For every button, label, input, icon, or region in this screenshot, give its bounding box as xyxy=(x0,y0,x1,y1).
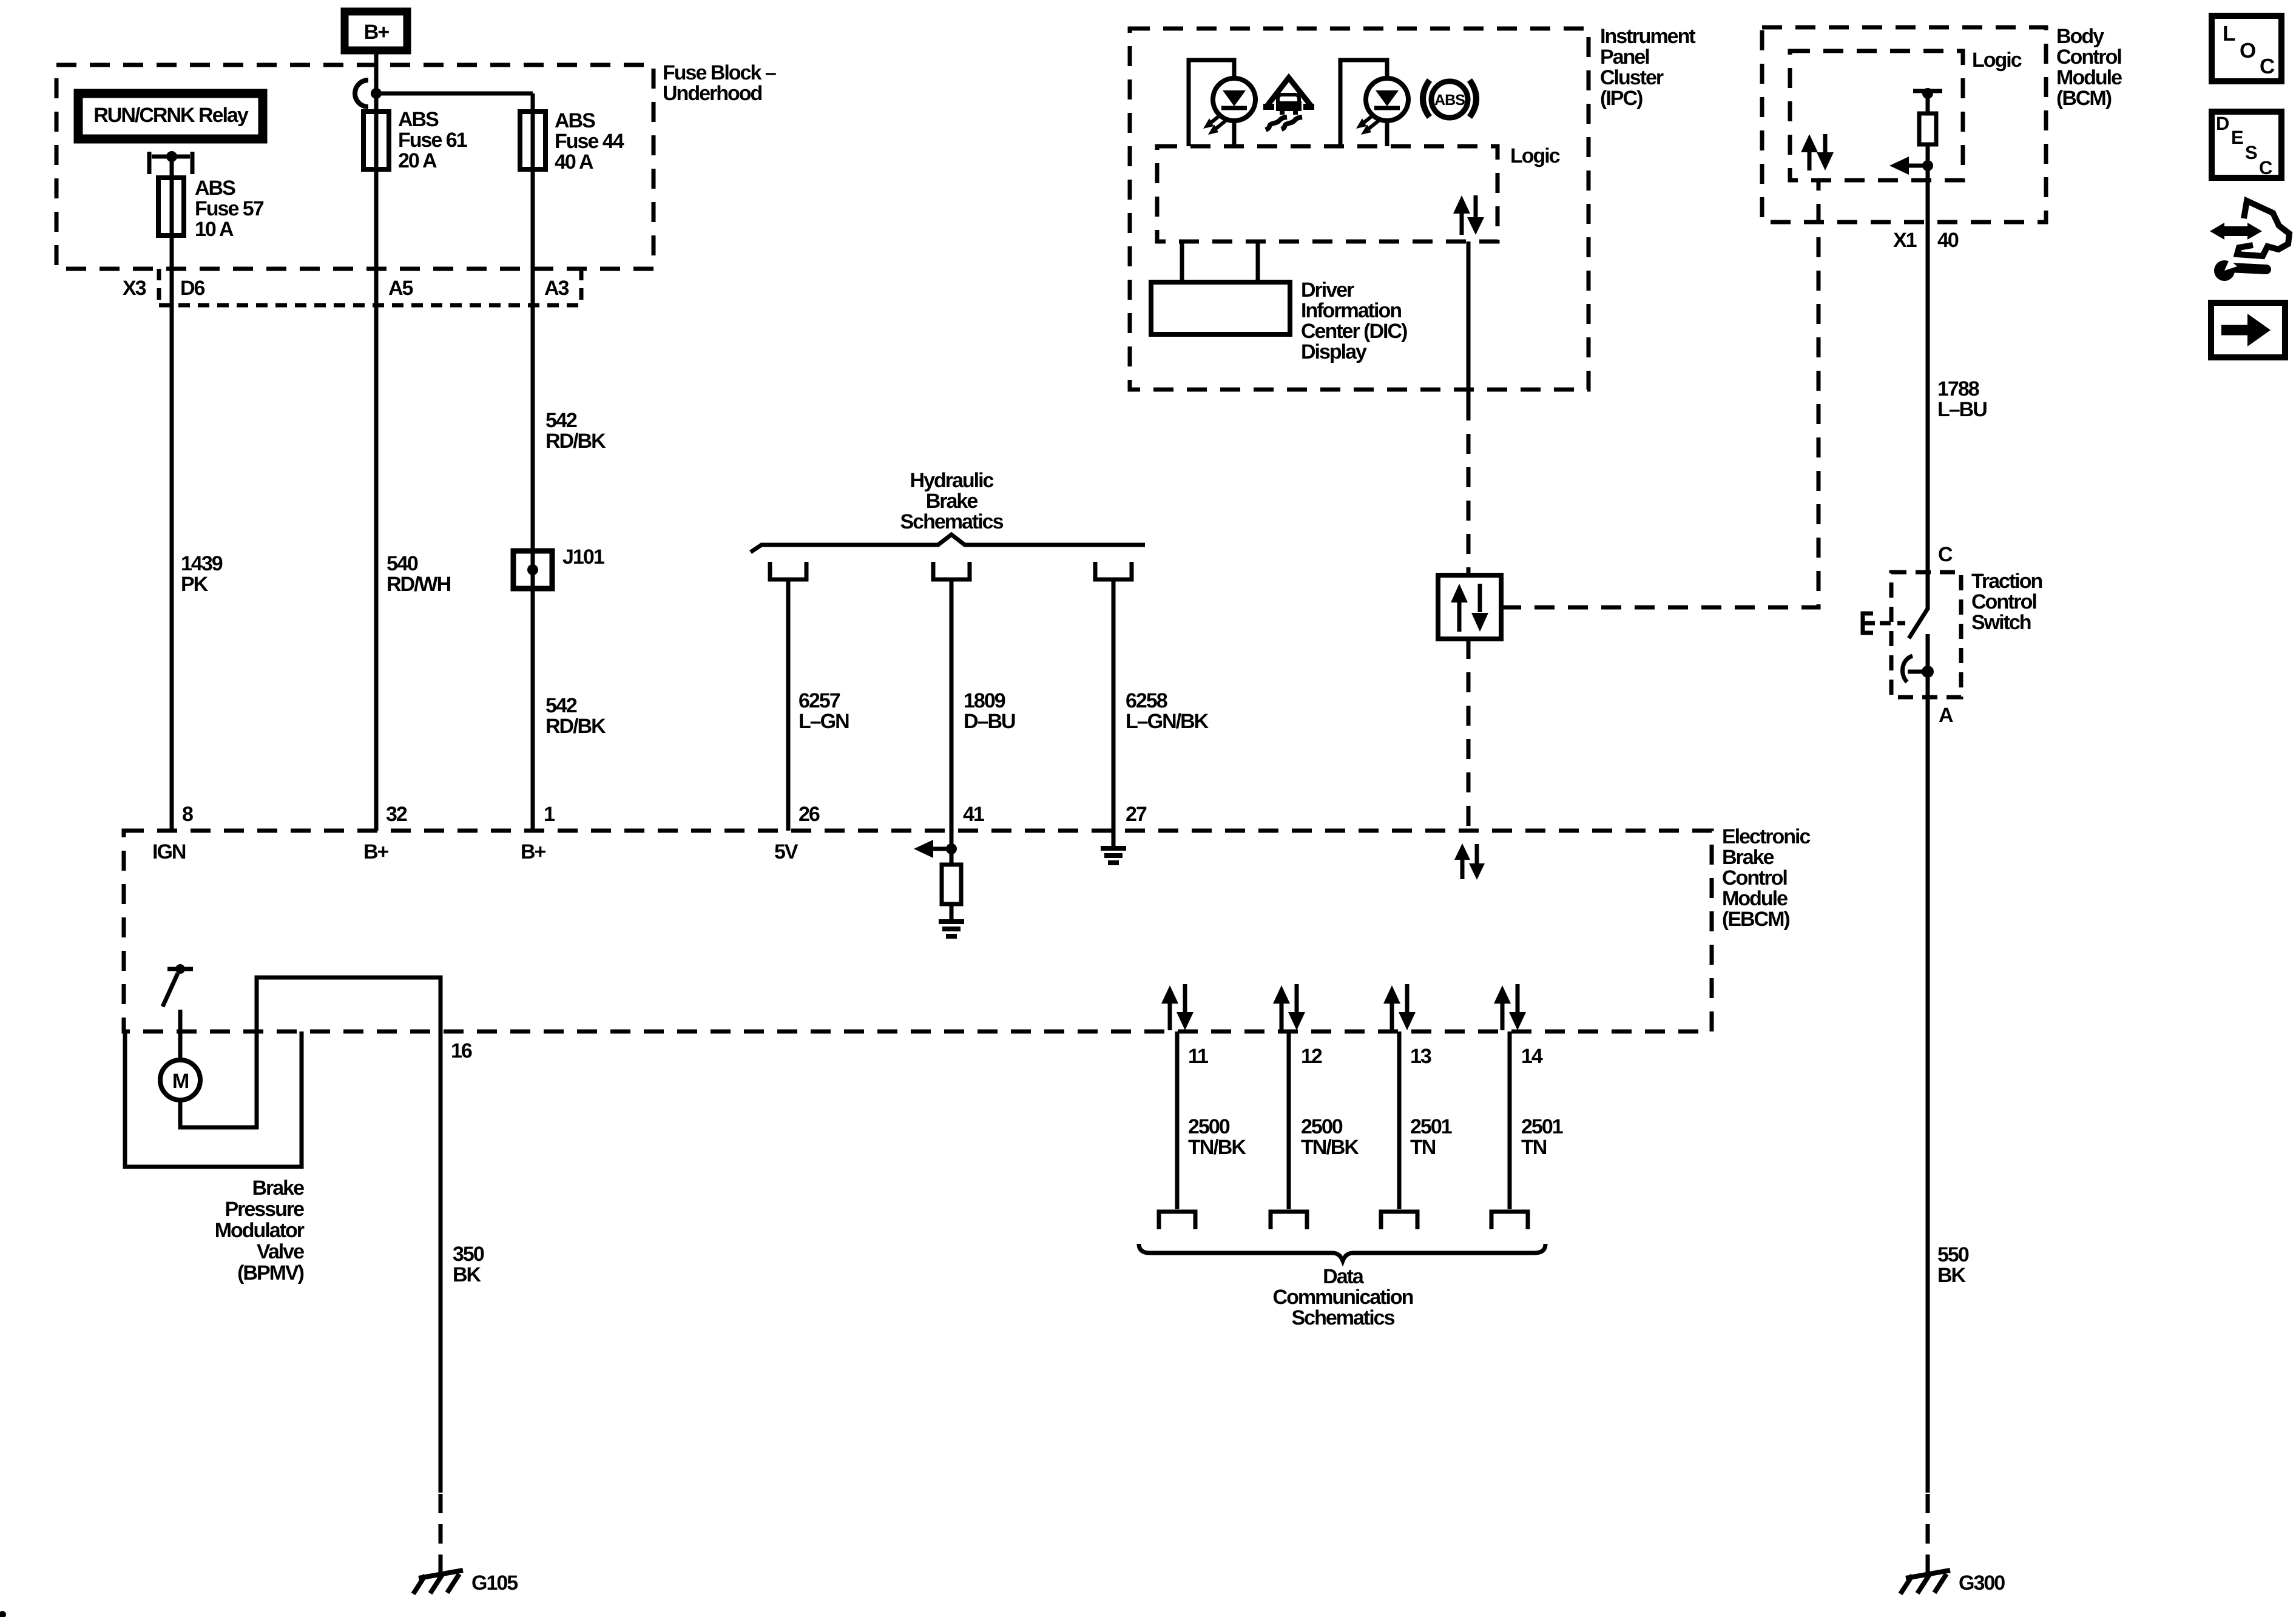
traction switch label xyxy=(1971,570,2042,634)
svg-text:B+: B+ xyxy=(364,21,390,44)
splice J101 xyxy=(513,545,604,589)
power symbol B+ xyxy=(345,12,407,50)
BCM pull-up terminal xyxy=(1913,88,1942,99)
svg-text:E: E xyxy=(2231,127,2243,148)
svg-text:27: 27 xyxy=(1126,803,1147,826)
relay RUN/CRNK xyxy=(78,93,263,139)
svg-text:14: 14 xyxy=(1521,1045,1543,1068)
svg-text:C: C xyxy=(1938,543,1953,566)
arrow internal left (pin 41) xyxy=(914,840,951,858)
sidebar icon DESC xyxy=(2212,112,2281,178)
svg-text:BK: BK xyxy=(1937,1264,1967,1287)
ground symbol pin 27 xyxy=(1101,848,1126,863)
sidebar icon diagnostic (arrow hose wrench) xyxy=(2210,201,2289,281)
wire 2500 TN/BK (pin 11) xyxy=(1175,1031,1180,1209)
svg-text:2500: 2500 xyxy=(1188,1115,1230,1138)
svg-text:Panel: Panel xyxy=(1600,46,1649,69)
svg-text:5V: 5V xyxy=(774,840,799,863)
DIC label xyxy=(1301,279,1407,363)
module IPC box xyxy=(1130,29,1589,390)
wire label 2501 TN (14) xyxy=(1521,1115,1563,1159)
off-page connector pin 12 xyxy=(1271,1212,1307,1229)
splice arc xyxy=(355,80,368,107)
svg-text:BK: BK xyxy=(453,1263,482,1286)
ground G300 xyxy=(1900,1570,2005,1595)
sidebar icon LOC xyxy=(2212,16,2281,81)
wire 542 RD/BK upper (pin 1) xyxy=(531,93,535,831)
ground G105 xyxy=(413,1570,518,1595)
junction B+ node xyxy=(371,88,382,99)
fuse F57 xyxy=(158,177,264,241)
svg-text:32: 32 xyxy=(386,803,407,826)
svg-text:40 A: 40 A xyxy=(555,150,593,174)
wire label 2501 TN (13) xyxy=(1410,1115,1452,1159)
svg-text:Fuse 57: Fuse 57 xyxy=(195,197,264,220)
svg-text:B+: B+ xyxy=(521,840,546,863)
wire 6258 L-GN/BK (pin 27) xyxy=(1112,579,1116,848)
svg-text:(IPC): (IPC) xyxy=(1600,87,1643,110)
wire 2501 TN (pin 14) xyxy=(1508,1031,1512,1209)
wire label 1439 PK xyxy=(181,552,223,596)
svg-text:40: 40 xyxy=(1937,229,1959,252)
svg-text:Control: Control xyxy=(2056,46,2121,69)
svg-text:ABS: ABS xyxy=(398,108,439,131)
svg-text:Brake: Brake xyxy=(1722,846,1774,869)
svg-text:C: C xyxy=(2259,157,2272,178)
indicator lamp 1 (ABS telltale) xyxy=(1189,60,1255,146)
svg-text:L: L xyxy=(2223,22,2235,46)
svg-text:350: 350 xyxy=(453,1243,484,1266)
svg-text:TN/BK: TN/BK xyxy=(1188,1136,1246,1159)
wire label 542 RD/BK lower xyxy=(545,694,606,738)
data link arrows pin 11 xyxy=(1161,984,1194,1030)
svg-text:Driver: Driver xyxy=(1301,279,1354,302)
svg-text:Fuse 44: Fuse 44 xyxy=(555,130,624,153)
svg-text:Hydraulic: Hydraulic xyxy=(910,469,994,492)
lamp 2 light rays xyxy=(1356,115,1379,135)
ground symbol EBCM internal xyxy=(939,922,964,936)
svg-text:TN/BK: TN/BK xyxy=(1301,1136,1359,1159)
off-page connector hydraulic 2 xyxy=(933,562,970,579)
svg-text:1: 1 xyxy=(544,803,555,826)
svg-text:D: D xyxy=(2216,113,2229,134)
arrow BCM internal left xyxy=(1889,157,1928,175)
EBCM serial data arrows xyxy=(1454,843,1485,880)
wire 540 RD/WH (pin 32) xyxy=(374,103,379,831)
svg-text:Switch: Switch xyxy=(1971,611,2031,634)
connector strip X3 xyxy=(159,269,581,305)
svg-text:8: 8 xyxy=(182,803,193,826)
BPMV label xyxy=(215,1176,305,1284)
svg-text:12: 12 xyxy=(1301,1045,1322,1068)
svg-text:Information: Information xyxy=(1301,299,1401,322)
relay output terminal xyxy=(149,151,192,174)
svg-text:Schematics: Schematics xyxy=(1292,1306,1395,1329)
resistor BCM internal xyxy=(1919,93,1936,180)
svg-text:Brake: Brake xyxy=(252,1176,304,1200)
svg-text:RD/WH: RD/WH xyxy=(387,573,451,596)
svg-text:Body: Body xyxy=(2056,25,2104,48)
svg-text:Instrument: Instrument xyxy=(1600,25,1695,48)
svg-text:540: 540 xyxy=(387,552,418,575)
svg-text:Display: Display xyxy=(1301,340,1367,363)
svg-text:6257: 6257 xyxy=(799,689,840,712)
wire label 1809 D-BU xyxy=(964,689,1015,733)
wire B+ feed xyxy=(374,50,379,113)
DIC display box xyxy=(1151,241,1290,334)
off-page connector pin 13 xyxy=(1381,1212,1417,1229)
wire label 540 RD/WH xyxy=(387,552,451,596)
EBCM label xyxy=(1722,825,1810,931)
pump motor relay contact xyxy=(163,964,193,1061)
svg-text:(EBCM): (EBCM) xyxy=(1722,908,1789,931)
svg-text:1439: 1439 xyxy=(181,552,223,575)
data link arrows pin 12 xyxy=(1273,984,1305,1030)
svg-text:Fuse 61: Fuse 61 xyxy=(398,129,467,152)
off-page connector pin 11 xyxy=(1159,1212,1195,1229)
wire label 550 BK xyxy=(1937,1243,1969,1287)
svg-text:1788: 1788 xyxy=(1937,377,1979,400)
data communication label xyxy=(1273,1265,1413,1329)
svg-text:M: M xyxy=(172,1070,189,1093)
svg-text:Cluster: Cluster xyxy=(1600,66,1664,89)
data link arrows pin 13 xyxy=(1383,984,1416,1030)
svg-text:ABS: ABS xyxy=(195,177,235,200)
wire label 542 RD/BK upper xyxy=(545,409,606,453)
svg-text:1809: 1809 xyxy=(964,689,1005,712)
svg-text:B+: B+ xyxy=(363,840,389,863)
svg-text:Underhood: Underhood xyxy=(663,82,762,105)
wire 550 BK dashed tail xyxy=(1926,1494,1930,1573)
svg-text:D6: D6 xyxy=(180,277,205,300)
fuse F44 xyxy=(520,109,624,174)
IPC logic data arrows xyxy=(1453,195,1484,235)
motor M pump xyxy=(160,1060,200,1100)
IPC label xyxy=(1600,25,1695,110)
IPC logic box xyxy=(1157,146,1497,241)
switch blade xyxy=(1909,609,1928,638)
svg-text:Schematics: Schematics xyxy=(900,510,1004,533)
switch actuator E bracket xyxy=(1863,613,1905,633)
svg-text:Brake: Brake xyxy=(926,490,978,513)
wire 6257 L-GN (pin 26) xyxy=(786,579,791,831)
wire 1439 PK (pin 8) xyxy=(170,179,174,831)
data link arrows pin 14 xyxy=(1494,984,1526,1030)
svg-text:Traction: Traction xyxy=(1971,570,2042,593)
svg-text:542: 542 xyxy=(545,409,577,432)
wire 2500 TN/BK (pin 12) xyxy=(1287,1031,1291,1209)
BCM logic box xyxy=(1790,51,1963,180)
svg-text:G105: G105 xyxy=(471,1571,518,1595)
svg-text:16: 16 xyxy=(451,1039,472,1062)
svg-text:TN: TN xyxy=(1410,1136,1436,1159)
off-page connector hydraulic 1 xyxy=(770,562,806,579)
svg-text:ABS: ABS xyxy=(1434,92,1465,109)
wire label 6258 L-GN/BK xyxy=(1126,689,1209,733)
svg-text:542: 542 xyxy=(545,694,577,717)
module BCM box xyxy=(1762,27,2046,222)
hydraulic section bracket xyxy=(751,535,1145,552)
svg-text:2501: 2501 xyxy=(1410,1115,1452,1138)
svg-text:Modulator: Modulator xyxy=(215,1219,305,1242)
wire label 350 BK xyxy=(453,1243,484,1286)
wire 1809 D-BU (pin 41) xyxy=(950,579,954,849)
BCM label xyxy=(2056,25,2122,110)
BPMV box xyxy=(125,1031,302,1167)
svg-text:D–BU: D–BU xyxy=(964,710,1015,733)
svg-text:RD/BK: RD/BK xyxy=(545,430,606,453)
sidebar icon forward arrow xyxy=(2211,303,2285,357)
svg-text:Logic: Logic xyxy=(1972,49,2022,72)
indicator lamp 2 (traction telltale) xyxy=(1340,60,1408,146)
traction telltale icon (car with skid) xyxy=(1263,78,1314,130)
svg-text:13: 13 xyxy=(1410,1045,1431,1068)
svg-text:O: O xyxy=(2240,39,2255,62)
svg-text:6258: 6258 xyxy=(1126,689,1167,712)
svg-text:Data: Data xyxy=(1323,1265,1365,1288)
svg-text:RUN/CRNK Relay: RUN/CRNK Relay xyxy=(93,104,249,127)
svg-text:RD/BK: RD/BK xyxy=(545,715,606,738)
svg-text:A5: A5 xyxy=(388,277,413,300)
BCM logic data arrows xyxy=(1801,134,1834,170)
svg-text:Pressure: Pressure xyxy=(225,1198,304,1221)
svg-text:L–GN: L–GN xyxy=(799,710,849,733)
node pin 41 junction xyxy=(946,843,957,854)
resistor EBCM internal xyxy=(942,849,961,920)
svg-text:C: C xyxy=(2260,55,2275,78)
wire junction to fuse 44 xyxy=(376,92,533,96)
svg-text:J101: J101 xyxy=(562,545,604,569)
svg-text:PK: PK xyxy=(181,573,209,596)
svg-text:2500: 2500 xyxy=(1301,1115,1343,1138)
svg-text:Module: Module xyxy=(2056,66,2122,89)
wire label 1788 L-BU xyxy=(1937,377,1987,421)
wire 2501 TN (pin 13) xyxy=(1397,1031,1402,1209)
svg-text:Fuse Block –: Fuse Block – xyxy=(663,61,776,84)
svg-text:A: A xyxy=(1939,704,1953,727)
fuse F61 xyxy=(363,108,467,172)
traction control switch box xyxy=(1891,572,1961,697)
svg-text:A3: A3 xyxy=(544,277,569,300)
wire motor to pin 16 xyxy=(180,977,441,1493)
svg-text:Control: Control xyxy=(1971,590,2036,613)
svg-text:2501: 2501 xyxy=(1521,1115,1563,1138)
dashed net IPC to interface xyxy=(1467,400,1471,575)
svg-text:G300: G300 xyxy=(1959,1571,2005,1595)
svg-text:Valve: Valve xyxy=(257,1240,304,1263)
svg-text:(BPMV): (BPMV) xyxy=(237,1261,304,1284)
svg-text:Logic: Logic xyxy=(1510,144,1560,167)
wire relay to fuse 57 xyxy=(170,157,174,182)
svg-text:11: 11 xyxy=(1188,1045,1208,1068)
svg-text:10 A: 10 A xyxy=(195,218,234,241)
svg-text:IGN: IGN xyxy=(152,840,186,863)
svg-text:L–BU: L–BU xyxy=(1937,398,1987,421)
svg-text:550: 550 xyxy=(1937,1243,1969,1266)
svg-text:X1: X1 xyxy=(1893,229,1917,252)
serial data interface box xyxy=(1438,575,1501,639)
svg-text:Module: Module xyxy=(1722,887,1788,910)
wire label 6257 L-GN xyxy=(799,689,849,733)
data communication brace xyxy=(1139,1244,1545,1261)
svg-text:Center (DIC): Center (DIC) xyxy=(1301,320,1407,343)
svg-text:41: 41 xyxy=(963,803,984,826)
fuse block label xyxy=(663,61,776,105)
svg-text:S: S xyxy=(2245,142,2257,163)
off-page connector pin 14 xyxy=(1491,1212,1528,1229)
node BCM junction xyxy=(1922,160,1933,171)
svg-text:TN: TN xyxy=(1521,1136,1547,1159)
svg-text:Communication: Communication xyxy=(1273,1286,1413,1309)
wire label 2500 TN/BK (11) xyxy=(1188,1115,1246,1159)
wire 1788 L-BU (X1-40) xyxy=(1926,180,1930,610)
svg-text:ABS: ABS xyxy=(555,109,595,132)
lamp 1 light rays xyxy=(1203,115,1226,135)
svg-text:X3: X3 xyxy=(123,277,146,300)
wire IPC logic to bottom xyxy=(1467,241,1471,400)
off-page connector hydraulic 3 xyxy=(1095,562,1132,579)
momentary detent symbol xyxy=(1903,656,1934,682)
svg-text:26: 26 xyxy=(799,803,820,826)
svg-text:20 A: 20 A xyxy=(398,149,437,172)
wire 350 BK dashed tail xyxy=(439,1494,443,1573)
page dot xyxy=(0,1611,6,1617)
svg-text:(BCM): (BCM) xyxy=(2056,87,2112,110)
dashed net interface to BCM xyxy=(1501,180,1818,607)
module EBCM box xyxy=(124,831,1712,1031)
hydraulic brake schematics label xyxy=(900,469,1004,533)
dashed net interface to EBCM xyxy=(1467,639,1471,831)
svg-text:Control: Control xyxy=(1722,866,1787,890)
ABS warning icon xyxy=(1423,80,1476,118)
fuse block underhood box xyxy=(56,65,653,269)
svg-text:Electronic: Electronic xyxy=(1722,825,1810,848)
switch lower contact wire xyxy=(1926,634,1930,1493)
svg-text:L–GN/BK: L–GN/BK xyxy=(1126,710,1209,733)
wire label 2500 TN/BK (12) xyxy=(1301,1115,1359,1159)
